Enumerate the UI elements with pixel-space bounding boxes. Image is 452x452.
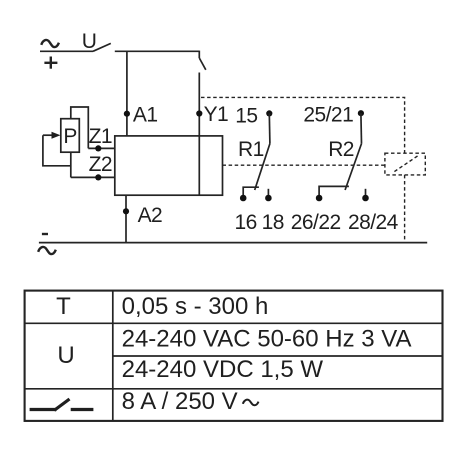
wire P top loop to Z1: [71, 107, 89, 148]
supply tilde (AC symbol, top-left): [41, 40, 59, 47]
spec table outer border: [25, 291, 443, 421]
terminal 18: [265, 195, 272, 202]
svg-text:28/24: 28/24: [348, 211, 399, 234]
terminal Y1: [196, 110, 202, 116]
svg-text:24-240 VDC 1,5 W: 24-240 VDC 1,5 W: [122, 356, 324, 383]
contact R1 blade: [255, 144, 270, 190]
table row line 2 (right column only): [113, 355, 443, 357]
relay output diagonal: [394, 155, 419, 172]
terminal 26/22: [316, 195, 323, 202]
wire A2 branch: [125, 195, 127, 242]
svg-text:T: T: [56, 293, 71, 320]
dashed mechanical link line: [223, 164, 385, 166]
svg-text:0,05 s - 300 h: 0,05 s - 300 h: [122, 293, 269, 320]
wire top supply rail left segment: [40, 50, 93, 52]
svg-text:8 A / 250 V: 8 A / 250 V: [122, 388, 238, 415]
terminal Z2: [95, 174, 101, 180]
wire Z2: [71, 176, 115, 178]
contact R2 blade: [345, 144, 361, 190]
wire from terminal 25/21: [360, 113, 363, 143]
supply tilde (AC symbol, bottom-left): [38, 247, 56, 254]
potentiometer P box: [61, 119, 80, 153]
wire Y1 stub from rail: [198, 51, 200, 58]
svg-text:R2: R2: [328, 138, 354, 161]
svg-text:U: U: [82, 30, 97, 53]
timer relay block divider: [198, 136, 200, 195]
terminal 16: [240, 195, 247, 202]
wire terminal 16 L: [243, 187, 259, 198]
wire top supply rail right segment: [115, 50, 200, 52]
wire terminal 28/24 stub: [365, 189, 367, 198]
switch U blade: [93, 43, 111, 51]
wire terminal 26/22 L: [319, 186, 349, 198]
svg-text:26/22: 26/22: [291, 211, 341, 234]
svg-text:24-240 VAC 50-60 Hz 3 VA: 24-240 VAC 50-60 Hz 3 VA: [122, 326, 412, 353]
svg-text:Z1: Z1: [89, 125, 112, 148]
svg-text:Z2: Z2: [89, 153, 112, 176]
relay output coil symbol (dashed box): [385, 153, 425, 175]
svg-text:16: 16: [235, 211, 257, 234]
timer relay block K1: [115, 136, 223, 195]
terminal A1: [124, 111, 130, 117]
svg-text:15: 15: [235, 105, 257, 128]
wire wiper feedback: [43, 135, 71, 166]
svg-text:A1: A1: [133, 104, 158, 127]
wire A1 branch: [126, 51, 128, 136]
svg-text:P: P: [63, 125, 76, 148]
table column divider: [112, 291, 114, 421]
minus sign (DC polarity, bottom-left): [42, 233, 48, 235]
dashed wire below relay symbol: [404, 175, 406, 243]
dashed control line Y1: [201, 97, 405, 153]
terminal A2: [123, 208, 129, 214]
svg-text:18: 18: [262, 211, 284, 234]
table contact symbol: [30, 399, 94, 410]
table rating tilde: [243, 400, 259, 406]
wire Z1: [88, 147, 115, 149]
wire P bottom stub: [70, 152, 72, 177]
svg-text:25/21: 25/21: [303, 104, 353, 127]
wire Y1 branch: [198, 73, 200, 136]
terminal 28/24: [362, 195, 369, 202]
svg-text:Y1: Y1: [204, 103, 229, 126]
wire bottom supply rail: [39, 242, 427, 244]
wiper arrow into P: [43, 134, 54, 136]
table row line 3: [25, 388, 443, 390]
table row line 1: [25, 322, 443, 324]
terminal 15: [266, 110, 272, 116]
svg-text:A2: A2: [138, 204, 163, 227]
switch Y1 blade: [199, 58, 206, 70]
svg-text:R1: R1: [238, 138, 264, 161]
plus sign (DC polarity, top-left): [44, 57, 57, 69]
terminal Z1: [95, 145, 101, 151]
wire from terminal 15: [268, 113, 271, 143]
svg-text:U: U: [57, 342, 74, 369]
wire terminal 18 stub: [267, 189, 269, 198]
terminal 25/21: [358, 110, 364, 116]
